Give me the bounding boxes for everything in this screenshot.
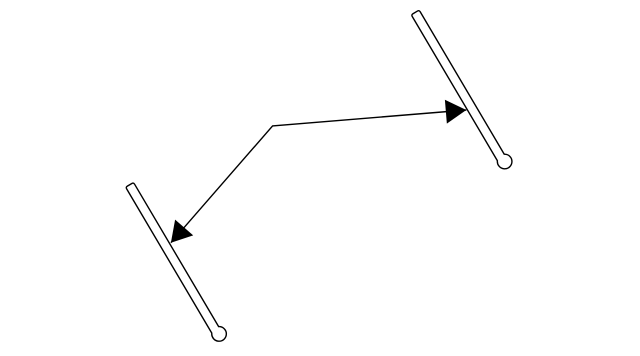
wire: bent double-headed connector	[171, 110, 466, 243]
rod R1 (upper right)	[410, 8, 515, 171]
arrowhead (left, pointing at rod R2)	[171, 220, 193, 243]
arrowhead (right, pointing at rod R1)	[445, 100, 466, 124]
rod R2 (lower left)	[124, 180, 229, 343]
